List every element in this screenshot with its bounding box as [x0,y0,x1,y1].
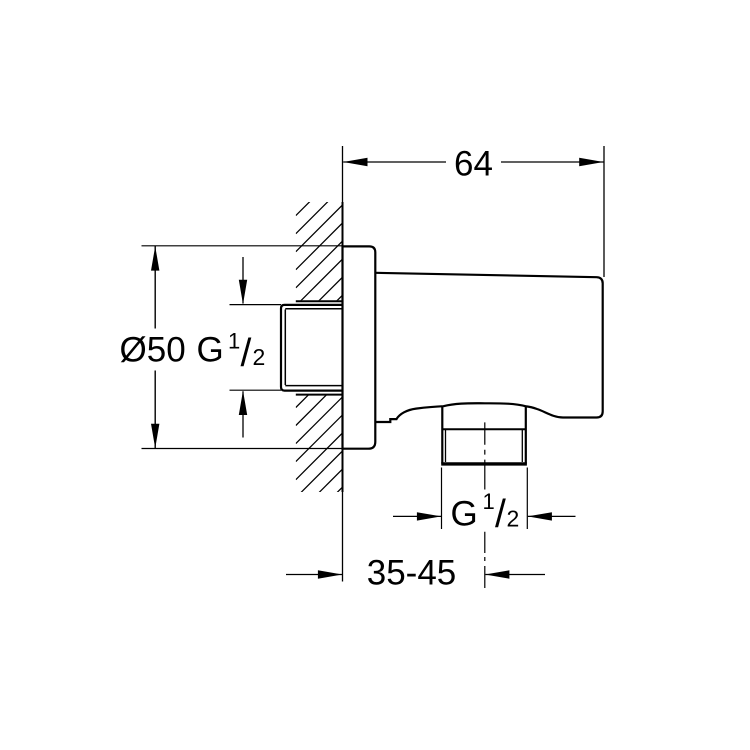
dimension G1/2 inlet extension lines [230,305,282,391]
svg-text:/: / [495,493,506,536]
svg-text:2: 2 [253,344,266,370]
svg-text:1: 1 [483,489,495,514]
svg-text:35-45: 35-45 [367,554,457,593]
node G1/2 male inlet thread connector into wall [281,305,343,391]
dimension G1/2 outlet arrow right [528,512,576,520]
dimension diameter 50 extension lines [142,246,343,449]
dimension diameter 50 arrowhead bottom [151,424,159,448]
dimension diameter 50 arrowhead top [151,246,159,270]
dimension diameter 50 line [154,246,156,449]
svg-text:1: 1 [228,328,240,353]
dimension 35-45 arrow left [286,570,342,578]
wall hatch lower block [296,361,343,534]
body elbow union housing outline [375,273,602,422]
svg-text:2: 2 [507,505,520,531]
dimension 35-45 arrow right [485,570,545,578]
centerline outlet axis dash-dot [484,422,486,588]
svg-text:G: G [197,331,224,370]
wire wall hole edge bottom [296,394,343,396]
dimension 64 arrowhead right [579,158,603,166]
dimension 64 extension line right [603,146,605,277]
dimension G1/2 outlet extension lines [442,468,528,530]
svg-text:/: / [241,332,252,375]
value label 35-45 with white halo [363,554,460,593]
value label diameter 50 G 1/2 with white halo [116,328,269,375]
flange escutcheon wall plate [343,246,376,448]
wire wall face extension line (left extension of 64 and 35-45 dims) [342,146,344,582]
wall hatch upper block [296,151,343,360]
dimension 64 arrowhead left [343,158,367,166]
svg-text:Ø50: Ø50 [120,331,186,370]
wire wall hole edge top [296,300,343,302]
dimension G1/2 inlet arrow bottom [239,391,247,438]
dimension G1/2 inlet arrow top [239,257,247,304]
outlet nipple G1/2 thread [441,406,527,464]
dimension 64 [343,161,603,163]
dimension G1/2 outlet arrow left [393,512,441,520]
svg-text:64: 64 [454,144,493,183]
wire wall face surface segment [342,202,344,492]
value label G 1/2 outlet with white halo [447,489,524,536]
svg-text:G: G [451,495,478,534]
